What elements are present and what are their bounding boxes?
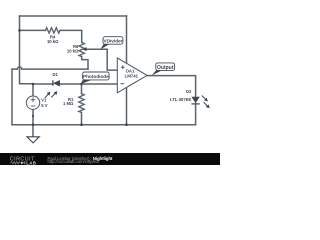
node VDivider flag xyxy=(101,37,123,50)
resistor R4 xyxy=(46,28,61,33)
name label OA1 LM741 xyxy=(125,69,139,79)
op-amp minus input marker xyxy=(121,83,125,85)
wire op-amp output to LED D2 xyxy=(147,76,195,97)
svg-text:LM741: LM741 xyxy=(125,74,139,79)
wire top 5V rail xyxy=(20,15,127,17)
value label R6 10 kOhm xyxy=(67,44,79,53)
wire R6 wiper to op-amp non-inverting input xyxy=(85,49,117,70)
junction dot op-amp V- at ground rail xyxy=(125,123,128,126)
resistor R6 potentiometer xyxy=(79,42,84,56)
junction dot at V1 plus node xyxy=(32,83,35,86)
resistor R1 xyxy=(79,94,84,113)
junction dot at R4 branch xyxy=(18,29,21,32)
LED D2 emitted light arrows xyxy=(202,96,210,109)
junction dot V1 at ground rail xyxy=(32,123,35,126)
value label D2 LTL-307EE xyxy=(170,89,192,102)
wire R1 bottom to rail xyxy=(81,113,83,125)
junction dot R1 at ground rail xyxy=(80,123,83,126)
svg-text:D1: D1 xyxy=(53,72,59,77)
node Photodiode flag xyxy=(80,72,109,84)
svg-text:1 MΩ: 1 MΩ xyxy=(63,101,74,106)
wire bottom ground rail xyxy=(12,124,196,126)
junction dot on V1 minus wire xyxy=(32,115,34,117)
svg-text:D2: D2 xyxy=(186,89,192,94)
svg-text:10 kΩ: 10 kΩ xyxy=(67,48,79,53)
svg-text:LTL-307EE: LTL-307EE xyxy=(170,97,192,102)
wire V1 plus terminal to node xyxy=(32,84,34,96)
wire D1 anode to photodiode node xyxy=(59,83,81,85)
wire photodiode node to op-amp inverting input xyxy=(82,83,118,85)
svg-text:Photodiode: Photodiode xyxy=(83,74,109,79)
wire D2 cathode to rail xyxy=(195,104,197,125)
svg-text:10 kΩ: 10 kΩ xyxy=(47,39,59,44)
photodiode D1 incoming light arrows xyxy=(45,91,58,98)
wire ground symbol stub xyxy=(32,125,34,137)
wire ground left riser xyxy=(11,69,13,125)
node Output flag xyxy=(152,63,175,76)
potentiometer R6 wiper arrow xyxy=(83,47,87,51)
wire R6 bottom to ground net xyxy=(82,57,88,70)
wire op-amp V+ pin from top rail xyxy=(126,16,128,63)
op-amp plus input marker xyxy=(121,65,125,83)
CircuitLab logo xyxy=(0,153,46,165)
wire R1 top xyxy=(81,84,83,94)
voltage source V1 xyxy=(26,96,39,109)
footer credit text xyxy=(48,157,113,164)
svg-text:V1: V1 xyxy=(41,97,47,102)
LED D2 xyxy=(191,96,209,109)
photodiode D1 xyxy=(45,80,60,98)
value label V1 5 V xyxy=(41,97,47,107)
junction dot at photodiode node xyxy=(80,83,83,86)
value label R1 1 MOhm xyxy=(63,97,74,106)
svg-text:VDivider: VDivider xyxy=(103,39,122,44)
wire op-amp V- pin to rail xyxy=(126,88,128,125)
wire V1 minus terminal to rail xyxy=(32,109,34,125)
svg-text:5 V: 5 V xyxy=(41,103,47,108)
wire left vertical V1+ riser xyxy=(20,16,34,84)
footer bar xyxy=(0,153,220,165)
wire R4 right to R6 top xyxy=(60,30,82,42)
wire node A to D1 cathode xyxy=(33,83,53,85)
ground xyxy=(27,137,39,143)
svg-text:LAB: LAB xyxy=(26,160,36,165)
op-amp OA1 xyxy=(117,58,147,93)
svg-text:Output: Output xyxy=(157,65,174,71)
wire ground horizontal with hop over V1+ riser xyxy=(12,67,88,69)
wire R4 branch from junction xyxy=(20,29,46,31)
value label R4 10 kOhm xyxy=(47,34,59,44)
